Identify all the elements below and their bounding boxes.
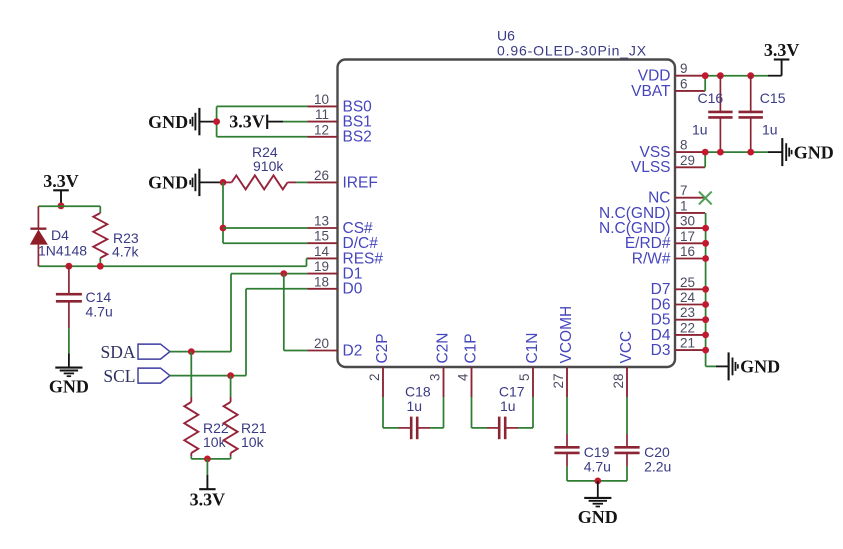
svg-text:20: 20 bbox=[314, 336, 329, 351]
capacitor C20 2.2u bbox=[626, 397, 628, 434]
svg-text:GND: GND bbox=[794, 142, 834, 162]
wire CS# bbox=[223, 227, 308, 229]
svg-text:1u: 1u bbox=[762, 121, 778, 137]
svg-text:0.96-OLED-30Pin_JX: 0.96-OLED-30Pin_JX bbox=[497, 43, 647, 59]
capacitor C19 4.7u bbox=[566, 397, 568, 434]
svg-text:IREF: IREF bbox=[343, 174, 378, 191]
svg-text:D0: D0 bbox=[343, 281, 363, 298]
svg-text:3.3V: 3.3V bbox=[190, 490, 226, 510]
pin 14 RES# bbox=[308, 257, 338, 259]
junction right bus bbox=[702, 286, 709, 293]
svg-text:C2N: C2N bbox=[435, 332, 452, 363]
pin 1 N.C(GND) bbox=[675, 212, 705, 214]
ground GND1 (BS0/BS2) bbox=[198, 108, 200, 135]
junction C14 bbox=[66, 263, 73, 270]
pin 20 D2 bbox=[308, 350, 338, 352]
wire VLSS elbow bbox=[704, 152, 706, 167]
svg-text:4.7u: 4.7u bbox=[584, 459, 611, 475]
svg-text:6: 6 bbox=[680, 76, 688, 91]
wire GND vertical to CS#/DC# bbox=[222, 182, 224, 243]
svg-text:R/W#: R/W# bbox=[632, 250, 671, 267]
junction 3.3V bottom bbox=[204, 456, 211, 463]
no-connect X on pin 7 bbox=[699, 192, 712, 205]
svg-text:VCC: VCC bbox=[618, 331, 635, 364]
pin 27 VCOMH bbox=[566, 367, 568, 397]
svg-text:5: 5 bbox=[517, 374, 532, 382]
svg-text:4.7u: 4.7u bbox=[86, 304, 113, 320]
ground GND6 bbox=[597, 481, 599, 498]
junction BS1-GND bbox=[213, 118, 220, 125]
capacitor C18 1u bbox=[382, 397, 384, 428]
wire D0 vertical to SCL bbox=[245, 289, 247, 376]
wire SDA to R22 bbox=[190, 352, 192, 397]
svg-text:U6: U6 bbox=[497, 27, 515, 43]
svg-text:1: 1 bbox=[680, 198, 688, 213]
svg-text:13: 13 bbox=[314, 214, 329, 229]
pin 10 BS0 bbox=[308, 105, 338, 107]
diode D4 1N4148 bbox=[37, 206, 39, 228]
svg-text:C19: C19 bbox=[584, 444, 610, 460]
capacitor C16 1u bbox=[719, 76, 721, 112]
junction VSS-VLSS bbox=[702, 149, 709, 156]
pin 30 N.C(GND) bbox=[675, 227, 705, 229]
wire C19-C20 bottom bbox=[567, 480, 627, 482]
svg-text:VLSS: VLSS bbox=[631, 159, 671, 176]
resistor R22 10k bbox=[190, 397, 192, 402]
wire D2 vertical bbox=[283, 274, 285, 351]
svg-text:18: 18 bbox=[314, 274, 329, 289]
resistor R23 4.7k bbox=[99, 206, 101, 213]
pin 16 R/W# bbox=[675, 258, 705, 260]
svg-text:19: 19 bbox=[314, 259, 329, 274]
svg-text:C1N: C1N bbox=[524, 332, 541, 363]
junction right bus bbox=[702, 255, 709, 262]
svg-text:29: 29 bbox=[680, 153, 695, 168]
junction C16 bottom bbox=[717, 149, 724, 156]
svg-text:22: 22 bbox=[680, 320, 695, 335]
svg-text:SDA: SDA bbox=[100, 342, 135, 362]
wire GND2 stem bbox=[199, 181, 223, 183]
pin 8 VSS bbox=[675, 151, 705, 153]
wire D/C# bbox=[223, 242, 308, 244]
junction C15 bottom bbox=[747, 149, 754, 156]
junction right bus bbox=[702, 316, 709, 323]
pin 22 D4 bbox=[675, 334, 705, 336]
pin 12 BS2 bbox=[308, 136, 338, 138]
junction right bus bbox=[702, 347, 709, 354]
wire RES# elbow bbox=[307, 257, 308, 259]
wire RES# long horizontal bbox=[38, 265, 306, 267]
junction 3.3V-D4-R23 bbox=[58, 202, 65, 209]
wire SCL bbox=[170, 375, 246, 377]
wire D0 bbox=[246, 288, 308, 290]
capacitor C17 1u bbox=[471, 397, 473, 428]
junction SDA-R22 bbox=[188, 348, 195, 355]
pin 7 NC bbox=[675, 197, 705, 199]
svg-text:C16: C16 bbox=[698, 90, 724, 106]
wire BS2 bbox=[217, 136, 308, 138]
wire VBAT elbow bbox=[704, 76, 706, 91]
svg-text:C14: C14 bbox=[86, 289, 112, 305]
wire right ground bus bbox=[705, 213, 707, 367]
svg-text:4: 4 bbox=[455, 373, 470, 381]
resistor R24 910k bbox=[223, 181, 232, 183]
power 3.3V top-left bbox=[60, 190, 62, 206]
svg-text:25: 25 bbox=[680, 275, 695, 290]
svg-text:D3: D3 bbox=[651, 342, 671, 359]
svg-text:21: 21 bbox=[680, 336, 695, 351]
svg-text:12: 12 bbox=[314, 122, 329, 137]
svg-text:BS2: BS2 bbox=[343, 129, 372, 146]
capacitor C14 4.7u bbox=[68, 266, 70, 294]
svg-text:GND: GND bbox=[49, 377, 89, 397]
pin 9 VDD bbox=[675, 75, 705, 77]
net flag SCL bbox=[138, 368, 170, 383]
pin 25 D7 bbox=[675, 288, 705, 290]
svg-text:10k: 10k bbox=[241, 434, 265, 450]
wire D1 vertical to SDA bbox=[230, 274, 232, 352]
pin 4 C1P bbox=[471, 367, 473, 397]
svg-text:SCL: SCL bbox=[103, 366, 135, 386]
ground GND3 right of C15 bbox=[768, 151, 782, 153]
svg-text:C1P: C1P bbox=[463, 333, 480, 363]
junction right bus bbox=[702, 225, 709, 232]
svg-text:14: 14 bbox=[314, 244, 330, 259]
svg-text:4.7k: 4.7k bbox=[112, 243, 139, 259]
pin 26 IREF bbox=[308, 181, 338, 183]
svg-text:D4: D4 bbox=[51, 227, 69, 243]
pin 18 D0 bbox=[308, 288, 338, 290]
pin 13 CS# bbox=[308, 227, 338, 229]
junction R23 bottom bbox=[97, 263, 104, 270]
junction C15 top bbox=[747, 72, 754, 79]
pin 19 D1 bbox=[308, 273, 338, 275]
wire SCL to R21 bbox=[230, 376, 232, 397]
svg-text:2: 2 bbox=[367, 374, 382, 382]
junction SCL-R21 bbox=[227, 372, 234, 379]
svg-text:GND: GND bbox=[578, 507, 618, 527]
svg-text:27: 27 bbox=[551, 374, 566, 389]
pin 5 C1N bbox=[532, 367, 534, 397]
svg-text:23: 23 bbox=[680, 305, 695, 320]
svg-text:GND: GND bbox=[148, 112, 188, 132]
wire VDD rail bbox=[705, 75, 768, 77]
svg-text:17: 17 bbox=[680, 229, 695, 244]
svg-text:15: 15 bbox=[314, 229, 329, 244]
svg-text:1u: 1u bbox=[692, 121, 708, 137]
wire BS1 bbox=[283, 121, 308, 123]
wire SDA bbox=[170, 351, 231, 353]
pin 3 C2N bbox=[443, 367, 445, 397]
svg-text:GND: GND bbox=[148, 173, 188, 193]
svg-text:10k: 10k bbox=[203, 434, 227, 450]
svg-text:3.3V: 3.3V bbox=[229, 112, 265, 132]
ground GND2 (IREF network) bbox=[198, 169, 200, 196]
junction VDD-VBAT bbox=[702, 72, 709, 79]
svg-text:3: 3 bbox=[427, 374, 442, 382]
svg-text:1u: 1u bbox=[407, 398, 423, 414]
junction CS# bbox=[220, 225, 227, 232]
wire BS bracket vertical bbox=[216, 106, 218, 136]
pin 29 VLSS bbox=[675, 166, 705, 168]
wire BS0 bbox=[217, 105, 308, 107]
svg-text:8: 8 bbox=[680, 138, 688, 153]
svg-text:VBAT: VBAT bbox=[631, 83, 671, 100]
junction right bus bbox=[702, 240, 709, 247]
svg-text:16: 16 bbox=[680, 244, 695, 259]
svg-text:VCOMH: VCOMH bbox=[558, 306, 575, 364]
svg-text:3.3V: 3.3V bbox=[764, 40, 800, 60]
junction right bus bbox=[702, 332, 709, 339]
svg-text:D2: D2 bbox=[343, 342, 363, 359]
junction IREF-GND bbox=[220, 179, 227, 186]
wire VSS rail bbox=[705, 151, 768, 153]
pin 11 BS1 bbox=[308, 121, 338, 123]
pin 2 C2P bbox=[382, 367, 384, 397]
svg-text:30: 30 bbox=[680, 214, 695, 229]
svg-text:7: 7 bbox=[680, 183, 688, 198]
IC U6 0.96-OLED-30Pin_JX bbox=[338, 60, 676, 368]
pin 21 D3 bbox=[675, 349, 705, 351]
wire D1 bbox=[231, 273, 308, 275]
svg-text:3.3V: 3.3V bbox=[43, 171, 79, 191]
wire GND1 stem bbox=[199, 121, 216, 123]
wire R22/R21 bottom bbox=[190, 456, 192, 459]
power 3.3V bottom bbox=[206, 459, 208, 475]
svg-text:C15: C15 bbox=[760, 90, 786, 106]
svg-text:C2P: C2P bbox=[374, 333, 391, 363]
pin 15 D/C# bbox=[308, 242, 338, 244]
wire D2 bbox=[284, 350, 308, 352]
svg-text:9: 9 bbox=[680, 61, 688, 76]
svg-text:10: 10 bbox=[314, 92, 329, 107]
svg-text:2.2u: 2.2u bbox=[644, 459, 671, 475]
svg-text:1N4148: 1N4148 bbox=[38, 242, 87, 258]
svg-text:1u: 1u bbox=[500, 398, 516, 414]
pin 28 VCC bbox=[626, 367, 628, 397]
svg-text:24: 24 bbox=[680, 290, 696, 305]
wire C14 to GND bbox=[68, 328, 70, 353]
resistor R21 10k bbox=[230, 397, 232, 402]
pin 23 D5 bbox=[675, 319, 705, 321]
wire IREF bbox=[296, 181, 308, 183]
svg-text:910k: 910k bbox=[253, 158, 284, 174]
junction GND6 bbox=[594, 478, 601, 485]
net flag SDA bbox=[138, 344, 170, 359]
ground GND4 under C14 bbox=[68, 354, 70, 368]
wire bus to GND5 bbox=[706, 365, 716, 367]
capacitor C15 1u bbox=[750, 76, 752, 112]
junction right bus bbox=[702, 301, 709, 308]
wire 3.3V top horizontal bbox=[38, 205, 100, 207]
pin 17 E/RD# bbox=[675, 242, 705, 244]
ground GND5 bbox=[716, 365, 729, 367]
pin 6 VBAT bbox=[675, 90, 705, 92]
svg-text:C20: C20 bbox=[644, 444, 670, 460]
pin 24 D6 bbox=[675, 304, 705, 306]
svg-text:26: 26 bbox=[314, 168, 329, 183]
svg-text:28: 28 bbox=[611, 374, 626, 389]
svg-text:11: 11 bbox=[315, 107, 329, 122]
junction D1-D2 bbox=[280, 270, 287, 277]
junction C16 top bbox=[717, 72, 724, 79]
svg-text:GND: GND bbox=[740, 357, 780, 377]
power 3.3V top-right bbox=[781, 60, 783, 76]
